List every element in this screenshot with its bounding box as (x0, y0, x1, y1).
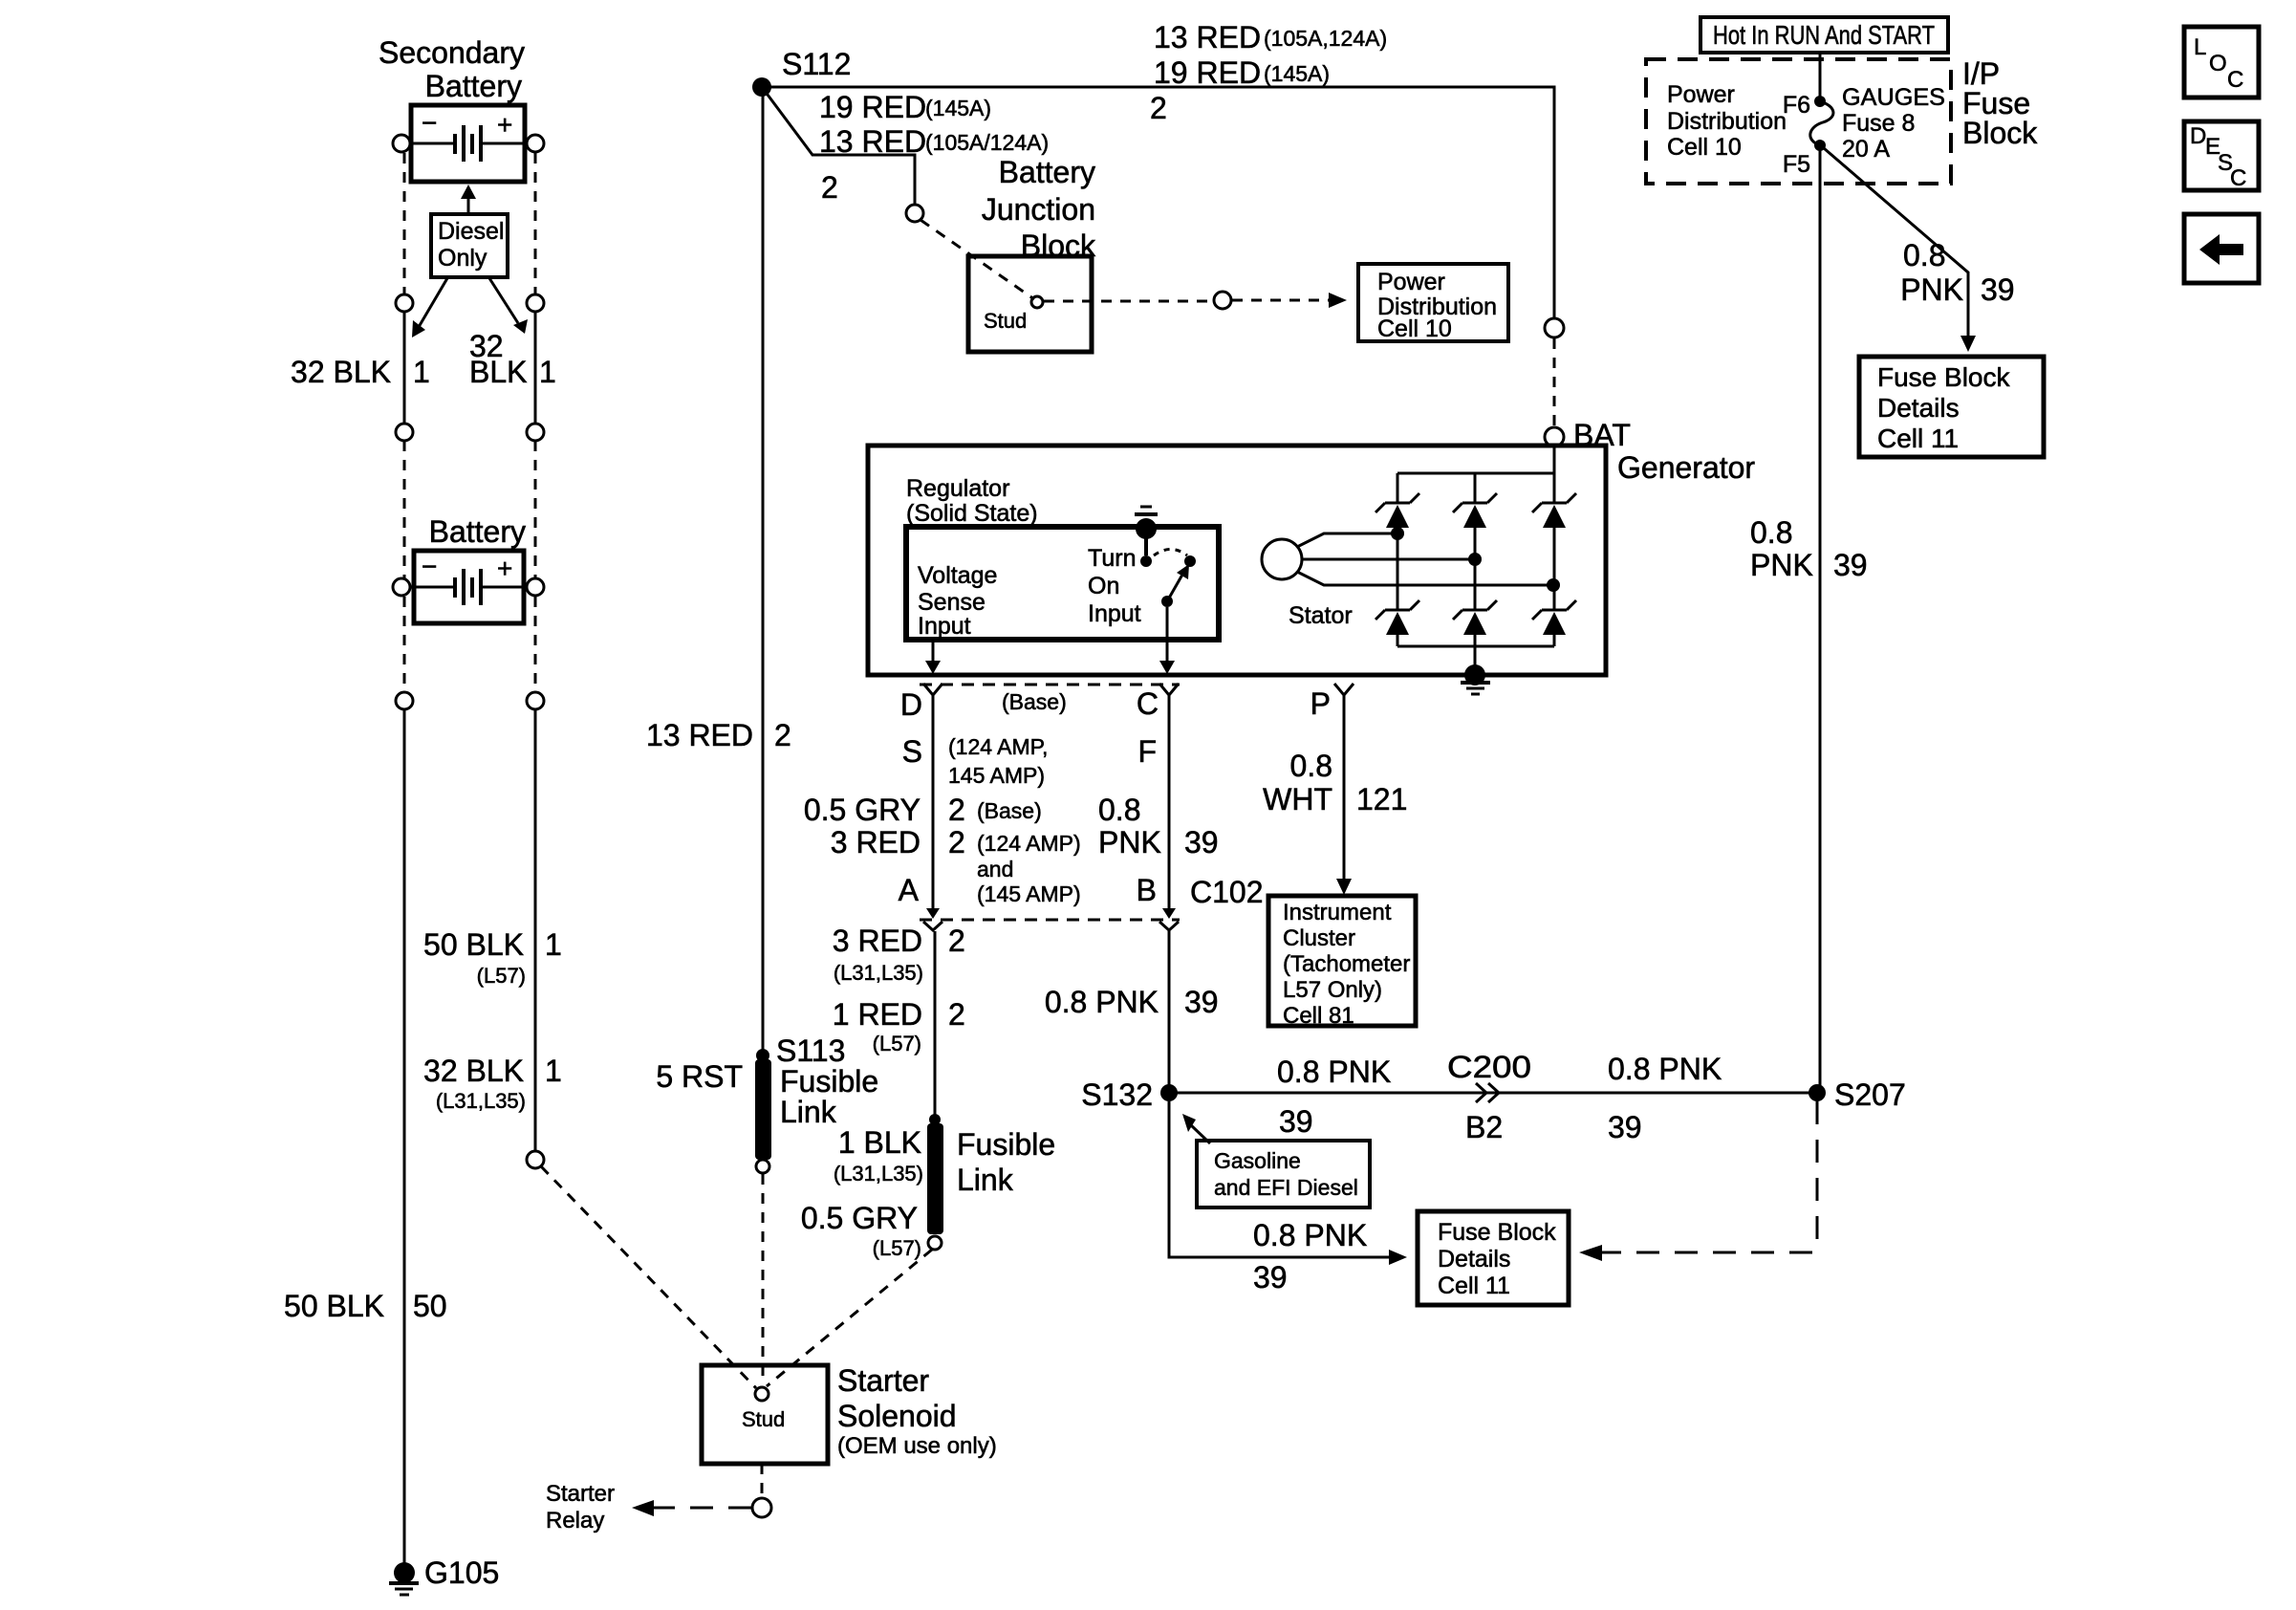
svg-text:0.8 PNK: 0.8 PNK (1608, 1052, 1722, 1086)
label 0.8 PNK 39 (C/B line) (1045, 985, 1219, 1019)
svg-text:Link: Link (957, 1163, 1014, 1197)
svg-text:0.8 PNK: 0.8 PNK (1045, 985, 1159, 1019)
svg-text:(105A,124A): (105A,124A) (1264, 26, 1387, 51)
svg-text:S207: S207 (1834, 1077, 1906, 1112)
LOC box (2184, 27, 2259, 98)
wire 32 BLK right (534, 312, 537, 424)
diode bottom 3 (1532, 600, 1576, 635)
svg-text:PNK: PNK (1750, 548, 1813, 582)
svg-text:B: B (1137, 873, 1157, 907)
svg-text:1 RED: 1 RED (833, 997, 922, 1032)
wire S132 down to fuse block (1169, 1101, 1389, 1257)
svg-text:2: 2 (821, 170, 838, 205)
svg-text:2: 2 (948, 825, 965, 859)
svg-text:Details: Details (1438, 1246, 1510, 1273)
svg-text:(145 AMP): (145 AMP) (977, 881, 1081, 906)
svg-text:13 RED: 13 RED (1154, 20, 1261, 54)
wire B to S132 (1168, 930, 1171, 1086)
svg-text:B2: B2 (1465, 1110, 1503, 1144)
label 0.8 PNK 39 (1750, 515, 1868, 582)
label 3 RED (L31,L35) 2 (833, 924, 965, 985)
regulator label (906, 475, 1038, 527)
svg-text:C200: C200 (1447, 1050, 1531, 1084)
svg-text:(145A): (145A) (1264, 61, 1330, 86)
svg-text:0.8 PNK: 0.8 PNK (1253, 1218, 1367, 1252)
connector ring (752, 1498, 771, 1517)
svg-text:Gasoline: Gasoline (1214, 1148, 1301, 1173)
svg-text:Block: Block (1962, 116, 2038, 150)
wire A to fusible link 2 (934, 931, 937, 1117)
svg-text:A: A (899, 873, 920, 907)
I/P fuse block dashed box (1646, 59, 1951, 184)
svg-text:L: L (2194, 34, 2206, 60)
svg-text:and: and (977, 857, 1013, 881)
svg-text:O: O (2209, 51, 2227, 76)
svg-text:39: 39 (1253, 1260, 1288, 1295)
secondary battery (393, 105, 544, 182)
label starter relay (546, 1481, 615, 1534)
label 0.8 PNK / 39 (1253, 1218, 1367, 1295)
svg-text:S112: S112 (782, 47, 851, 81)
wire right chain (534, 709, 537, 1151)
svg-text:Stud: Stud (742, 1407, 785, 1431)
svg-text:Link: Link (780, 1095, 837, 1129)
label 3 RED 2 (124 AMP) and (145 AMP) (831, 825, 1081, 906)
node S207 (1809, 1077, 1906, 1112)
wire turn on to C (1159, 607, 1175, 674)
connector ring (527, 692, 544, 709)
wire 0.8 PNK down to S207 (1819, 145, 1822, 1093)
svg-text:39: 39 (1279, 1104, 1313, 1139)
label 50 BLK 50 (284, 1289, 447, 1323)
wire 13 RED from S112 down (762, 87, 765, 1052)
label 32 BLK 1 (469, 329, 556, 389)
svg-text:Input: Input (1088, 600, 1141, 627)
svg-text:Secondary: Secondary (379, 35, 525, 70)
svg-text:(L57): (L57) (477, 964, 526, 988)
svg-text:S132: S132 (1081, 1077, 1153, 1112)
fusible link 2 (927, 1114, 1055, 1250)
label I/P fuse block (1962, 56, 2038, 150)
stator (1262, 533, 1553, 629)
battery junction block (968, 155, 1096, 352)
svg-text:Hot In RUN And START: Hot In RUN And START (1713, 20, 1935, 50)
svg-text:Cluster: Cluster (1283, 925, 1355, 951)
svg-text:D: D (900, 687, 922, 722)
svg-text:32 BLK: 32 BLK (423, 1054, 524, 1088)
diode bridge rails (1397, 447, 1554, 669)
generator internal ground (1461, 664, 1490, 694)
label 32 BLK (L31,L35) 1 (423, 1054, 562, 1113)
svg-text:Battery: Battery (425, 69, 522, 103)
svg-text:Fusible: Fusible (780, 1064, 878, 1099)
svg-text:(L31,L35): (L31,L35) (834, 961, 923, 985)
svg-text:+: + (497, 554, 512, 583)
svg-text:−: − (422, 108, 437, 138)
node S113 (756, 1033, 845, 1068)
instrument cluster box (1268, 896, 1416, 1029)
svg-text:32 BLK: 32 BLK (291, 355, 391, 389)
svg-text:Cell 11: Cell 11 (1438, 1273, 1510, 1299)
svg-text:50 BLK: 50 BLK (284, 1289, 384, 1323)
svg-text:13 RED: 13 RED (819, 124, 926, 159)
svg-text:39: 39 (1981, 272, 2015, 307)
gasoline and EFI diesel box (1182, 1114, 1370, 1207)
wire 50 BLK to ground (403, 709, 406, 1564)
svg-text:1: 1 (545, 927, 562, 962)
label 13 RED (105A/124A) (819, 124, 1049, 159)
label 0.5 GRY 2 (Base) (804, 793, 1042, 827)
starter solenoid (702, 1363, 997, 1464)
diode top 1 (1375, 493, 1419, 528)
wire voltage sense to D (925, 640, 941, 674)
label 0.5 GRY (L57) (801, 1201, 921, 1260)
svg-text:C: C (2230, 165, 2246, 191)
svg-text:Fuse 8: Fuse 8 (1842, 110, 1915, 137)
label 13 RED 2 (646, 718, 791, 752)
connector C102 dashed top (920, 684, 1180, 686)
secondary battery label (379, 35, 525, 103)
svg-text:2: 2 (948, 793, 965, 827)
svg-text:Cell 11: Cell 11 (1877, 424, 1959, 453)
wire (dashed to solenoid) (762, 1174, 765, 1382)
svg-text:39: 39 (1608, 1110, 1642, 1144)
svg-text:Diesel: Diesel (438, 218, 504, 245)
wire (dashed arrow to power distribution) (1232, 293, 1347, 308)
node S132 (1081, 1077, 1178, 1112)
svg-text:PNK: PNK (1900, 272, 1963, 307)
svg-text:Junction: Junction (982, 192, 1095, 227)
svg-text:19 RED: 19 RED (819, 90, 926, 124)
svg-text:(145A): (145A) (925, 96, 991, 120)
svg-text:F6: F6 (1783, 92, 1810, 119)
svg-text:145 AMP): 145 AMP) (948, 763, 1045, 788)
battery (393, 551, 544, 623)
back arrow box (2184, 214, 2259, 283)
svg-text:(Base): (Base) (1002, 689, 1067, 714)
svg-text:Relay: Relay (546, 1508, 604, 1534)
wire 13/19 RED top run (762, 87, 1554, 317)
svg-text:39: 39 (1184, 825, 1219, 859)
svg-text:1: 1 (413, 355, 430, 389)
svg-text:WHT: WHT (1263, 782, 1332, 816)
fuse 8 (1783, 53, 1833, 178)
svg-text:S113: S113 (776, 1033, 845, 1068)
svg-text:0.5 GRY: 0.5 GRY (801, 1201, 918, 1235)
wire (dashed) (921, 220, 1034, 299)
terminal P (1310, 684, 1354, 895)
ground G105 (389, 1556, 499, 1595)
chevron below A (923, 922, 942, 930)
label 32 BLK 1 (291, 355, 430, 389)
terminal D (900, 684, 942, 919)
svg-text:GAUGES: GAUGES (1842, 84, 1945, 111)
connector ring (527, 294, 544, 312)
svg-text:Turn: Turn (1088, 545, 1136, 572)
fusible link S113 (656, 1059, 878, 1173)
wire (dashed) (534, 597, 537, 692)
svg-text:Only: Only (438, 245, 487, 272)
fuse block details cell 11 box (1418, 1211, 1569, 1305)
wire (dashed below solenoid) (761, 1464, 764, 1495)
svg-text:2: 2 (1150, 91, 1167, 125)
label 1 BLK (L31,L35) (834, 1125, 923, 1186)
svg-text:Regulator: Regulator (906, 475, 1009, 502)
svg-text:50 BLK: 50 BLK (423, 927, 524, 962)
wire (dashed to solenoid) (767, 1250, 932, 1386)
svg-text:0.5 GRY: 0.5 GRY (804, 793, 921, 827)
svg-text:0.8: 0.8 (1290, 749, 1332, 783)
svg-text:(L31,L35): (L31,L35) (436, 1089, 526, 1113)
svg-text:D: D (2190, 123, 2206, 149)
svg-text:F5: F5 (1783, 151, 1810, 178)
label power distribution cell 10 (1667, 81, 1787, 161)
turn on input label (1088, 545, 1141, 627)
svg-text:P: P (1310, 686, 1331, 721)
connector ring (396, 424, 413, 441)
svg-text:Starter: Starter (546, 1481, 615, 1507)
svg-text:(124 AMP,: (124 AMP, (948, 734, 1048, 759)
svg-text:Voltage: Voltage (918, 562, 997, 589)
diode bottom 2 (1453, 600, 1497, 635)
svg-text:121: 121 (1356, 782, 1407, 816)
svg-text:BLK: BLK (469, 355, 527, 389)
label (124 AMP, 145 AMP) (948, 734, 1048, 788)
svg-text:5 RST: 5 RST (656, 1059, 743, 1094)
svg-text:−: − (422, 552, 437, 581)
wire 32 BLK left (403, 312, 406, 424)
svg-text:Generator: Generator (1617, 450, 1755, 485)
wire (dashed) (403, 597, 406, 692)
voltage sense input label (918, 562, 997, 640)
terminal BAT (1545, 418, 1631, 452)
svg-text:1 BLK: 1 BLK (838, 1125, 921, 1160)
svg-text:Fuse Block: Fuse Block (1438, 1219, 1556, 1246)
svg-text:Details: Details (1877, 393, 1960, 423)
svg-text:0.8 PNK: 0.8 PNK (1277, 1055, 1391, 1089)
svg-text:Starter: Starter (837, 1363, 929, 1398)
label 19 RED (145A) (819, 90, 991, 124)
label 50 BLK (L57) 1 (423, 927, 562, 988)
connector ring (527, 1151, 544, 1168)
label 0.8 PNK 39 (1098, 793, 1219, 859)
connector ring (906, 205, 923, 222)
svg-text:G105: G105 (424, 1556, 499, 1590)
svg-text:Sense: Sense (918, 589, 986, 616)
svg-text:Instrument: Instrument (1283, 900, 1392, 925)
svg-text:2: 2 (774, 718, 791, 752)
svg-text:20 A: 20 A (1842, 136, 1890, 163)
label 0.8 WHT 121 (1263, 749, 1407, 816)
svg-text:39: 39 (1833, 548, 1868, 582)
label 13 RED (105A,124A) (1154, 20, 1387, 54)
connector ring on junction run (1545, 318, 1564, 337)
label 1 RED (L57) 2 (833, 997, 965, 1055)
svg-text:(105A/124A): (105A/124A) (925, 130, 1049, 155)
svg-text:Power: Power (1667, 81, 1735, 108)
svg-text:and EFI Diesel: and EFI Diesel (1214, 1175, 1358, 1200)
svg-text:Battery: Battery (429, 514, 526, 549)
label 0.8 PNK / 39 left (1277, 1055, 1391, 1139)
wire S132 to S207 (1169, 1092, 1817, 1095)
diode bottom 1 (1375, 600, 1419, 635)
svg-text:C: C (2227, 67, 2243, 93)
svg-text:1: 1 (539, 355, 556, 389)
wire (dashed) (1044, 300, 1212, 303)
svg-text:13 RED: 13 RED (646, 718, 753, 752)
svg-text:Stud: Stud (984, 309, 1027, 333)
label 19 RED (145A) (1154, 55, 1330, 90)
svg-text:On: On (1088, 573, 1119, 599)
connector ring (1214, 292, 1231, 309)
svg-text:L57 Only): L57 Only) (1283, 977, 1382, 1003)
hot in run and start box (1700, 17, 1948, 53)
label GAUGES fuse 8 20 A (1842, 84, 1945, 163)
chevron below B (1159, 922, 1179, 930)
node S112 (752, 47, 851, 97)
svg-text:Cell 81: Cell 81 (1283, 1003, 1354, 1029)
svg-text:(Base): (Base) (977, 798, 1042, 823)
regulator ground (1135, 507, 1158, 567)
svg-text:3 RED: 3 RED (831, 825, 921, 859)
svg-text:Power: Power (1377, 269, 1445, 295)
svg-text:Stator: Stator (1289, 602, 1353, 629)
svg-text:Fuse Block: Fuse Block (1877, 362, 2010, 392)
wire (dashed to BAT) (1553, 338, 1556, 426)
svg-text:Battery: Battery (999, 155, 1095, 189)
svg-text:Cell 10: Cell 10 (1667, 134, 1742, 161)
wire (battery positive lead, dashed) (534, 153, 537, 294)
svg-text:+: + (497, 110, 512, 140)
wire (dashed arrow to starter relay) (632, 1500, 751, 1516)
svg-text:0.8: 0.8 (1903, 238, 1945, 272)
wire (dashed from S207 to fuse block) (1579, 1101, 1817, 1261)
connector C102 dashed bottom (920, 919, 1180, 922)
svg-text:(L57): (L57) (873, 1236, 921, 1260)
svg-text:19 RED: 19 RED (1154, 55, 1261, 90)
svg-text:Input: Input (918, 613, 971, 640)
svg-text:0.8: 0.8 (1750, 515, 1792, 550)
DESC box (2184, 121, 2259, 191)
wire to junction block (762, 87, 915, 205)
svg-text:3 RED: 3 RED (833, 924, 922, 958)
svg-text:2: 2 (948, 924, 965, 958)
wire (battery negative lead, dashed) (403, 153, 406, 294)
svg-text:PNK: PNK (1098, 825, 1161, 859)
svg-text:(Solid State): (Solid State) (906, 500, 1038, 527)
diode top 2 (1453, 493, 1497, 528)
svg-text:Cell 10: Cell 10 (1377, 315, 1452, 342)
wire (dashed) (534, 441, 537, 578)
svg-text:(124 AMP): (124 AMP) (977, 831, 1081, 856)
connector ring (527, 424, 544, 441)
connector C200 B2 (1447, 1050, 1531, 1144)
svg-text:(L57): (L57) (873, 1032, 921, 1055)
svg-text:(Tachometer: (Tachometer (1283, 951, 1410, 977)
diesel only box (412, 185, 528, 337)
svg-text:Solenoid: Solenoid (837, 1399, 957, 1433)
power distribution cell 10 box (1358, 264, 1508, 342)
regulator box (906, 527, 1219, 640)
svg-text:39: 39 (1184, 985, 1219, 1019)
svg-text:50: 50 (413, 1289, 447, 1323)
svg-text:Distribution: Distribution (1667, 108, 1787, 135)
junction dots on stator lines (1391, 527, 1560, 592)
svg-text:F: F (1137, 734, 1157, 769)
label 0.8 PNK 39 (1900, 238, 2014, 307)
connector ring (396, 692, 413, 709)
turn-on switch (1154, 550, 1196, 608)
svg-text:Fusible: Fusible (957, 1127, 1055, 1162)
svg-text:C102: C102 (1190, 875, 1264, 909)
svg-text:(L31,L35): (L31,L35) (834, 1162, 923, 1186)
connector ring (396, 294, 413, 312)
wire (dashed to solenoid stud) (541, 1166, 756, 1388)
wire to fuse block details (diagonal) (1824, 148, 1976, 352)
svg-text:2: 2 (948, 997, 965, 1032)
generator box (868, 446, 1755, 675)
svg-text:C: C (1137, 686, 1159, 721)
diode top 3 (1532, 493, 1576, 528)
svg-text:0.8: 0.8 (1098, 793, 1140, 827)
terminal C (1137, 684, 1179, 919)
fuse block details cell 11 box (top) (1859, 357, 2044, 457)
label 0.8 PNK / 39 right (1608, 1052, 1722, 1144)
svg-text:S: S (902, 734, 922, 769)
svg-text:1: 1 (545, 1054, 562, 1088)
wire (dashed) (403, 441, 406, 578)
svg-text:(OEM use only): (OEM use only) (837, 1433, 997, 1459)
